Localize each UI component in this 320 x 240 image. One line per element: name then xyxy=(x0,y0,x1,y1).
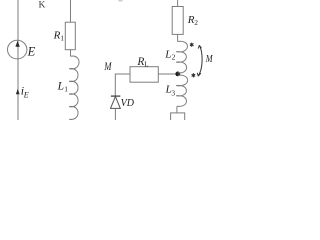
svg-text:E: E xyxy=(27,44,36,58)
svg-text:2: 2 xyxy=(172,53,176,62)
resistor R2 xyxy=(172,7,183,35)
wire right branch top xyxy=(177,0,179,7)
svg-text:E: E xyxy=(23,90,29,99)
svg-text:1: 1 xyxy=(64,84,68,93)
mutual arrow M xyxy=(198,46,202,76)
polarity star bottom xyxy=(192,73,196,77)
wire RL to junction xyxy=(158,73,176,75)
junction dot xyxy=(175,72,180,77)
svg-text:L: L xyxy=(164,48,171,60)
wire below diode xyxy=(114,108,116,120)
svg-text:L: L xyxy=(57,80,64,92)
current arrow iE xyxy=(16,89,20,95)
svg-text:1: 1 xyxy=(60,34,64,43)
svg-text:M: M xyxy=(103,61,112,73)
source E arrow xyxy=(15,41,19,47)
diode VD xyxy=(111,95,120,97)
inductor L3 xyxy=(176,75,188,106)
svg-text:L: L xyxy=(144,60,148,68)
wire branch2 top xyxy=(70,0,72,22)
wire L3 to bottom box xyxy=(176,106,178,113)
top faint mark xyxy=(119,0,123,1)
wire R1 to L1 xyxy=(70,50,72,57)
wire R2 to L2 xyxy=(177,34,179,41)
resistor RL xyxy=(130,67,158,83)
resistor R1 xyxy=(65,22,75,50)
wire M corner vertical xyxy=(115,74,130,96)
inductor L1 xyxy=(69,56,79,119)
polarity star top xyxy=(190,43,194,47)
svg-text:2: 2 xyxy=(194,18,198,27)
source E circle xyxy=(8,40,27,59)
svg-text:VD: VD xyxy=(121,98,135,109)
svg-text:3: 3 xyxy=(171,88,175,97)
wire left branch vertical xyxy=(17,0,19,120)
resistor bottom (clipped) xyxy=(171,113,185,122)
svg-text:M: M xyxy=(205,53,213,65)
inductor L2 xyxy=(176,41,187,73)
svg-text:K: K xyxy=(39,1,46,11)
